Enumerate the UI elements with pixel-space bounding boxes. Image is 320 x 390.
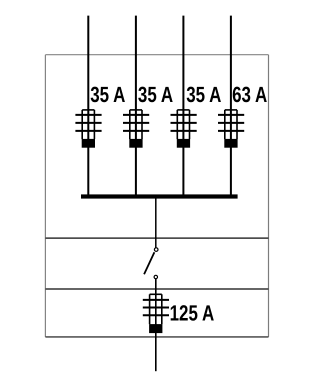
switch Q1 blade (open) xyxy=(144,252,154,274)
svg-text:35 A: 35 A xyxy=(138,82,173,107)
wire feeder 1 xyxy=(87,16,89,197)
fuse F5 125A (main) xyxy=(143,294,169,333)
wire feeder 2 xyxy=(135,16,137,197)
switch Q1 upper contact xyxy=(154,248,158,252)
fuse F1 35A xyxy=(75,110,101,148)
svg-text:35 A: 35 A xyxy=(186,82,221,107)
svg-text:35 A: 35 A xyxy=(90,82,125,107)
svg-text:125 A: 125 A xyxy=(170,301,215,326)
busbar xyxy=(81,194,238,198)
wire feeder 3 xyxy=(182,16,184,197)
divider line 2 (main fuse section) xyxy=(45,288,268,290)
fuse F2 35A xyxy=(123,110,149,148)
fuse F4 63A xyxy=(218,110,244,148)
divider line 1 (switch section) xyxy=(45,237,268,239)
wire feeder 4 xyxy=(230,16,232,197)
svg-text:63 A: 63 A xyxy=(232,82,267,107)
switch Q1 lower contact xyxy=(154,275,157,278)
fuse F3 35A xyxy=(171,110,197,148)
wire switch to main fuse and outgoing tail xyxy=(155,279,157,371)
panel outline (cubicle box) xyxy=(45,55,268,337)
wire busbar to switch xyxy=(155,198,157,248)
